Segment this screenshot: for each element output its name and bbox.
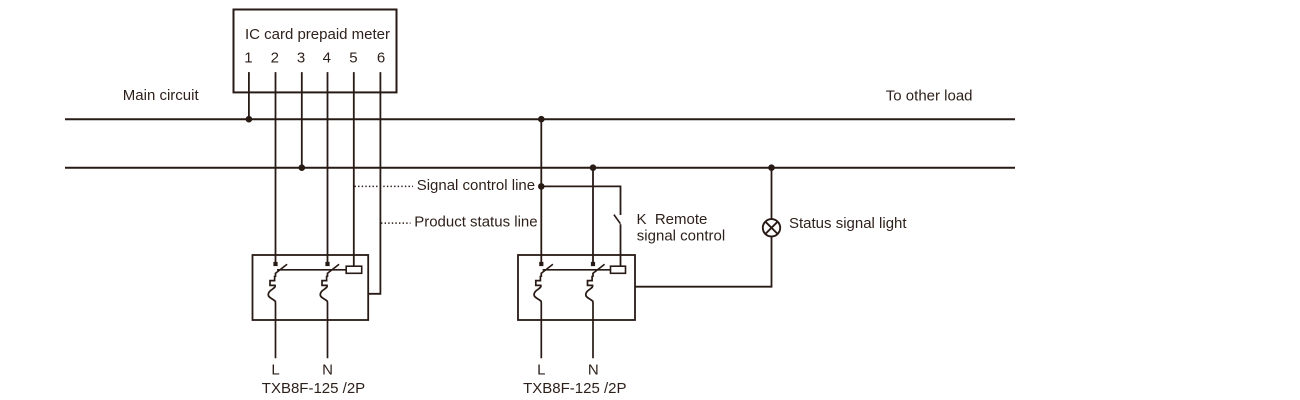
svg-text:K Remote: K Remote (637, 211, 708, 228)
breaker QF2 pole 1 blade (541, 264, 553, 274)
svg-text:2: 2 (271, 50, 279, 67)
wire top bus to QF2 pole 1 (540, 119, 542, 262)
wire pin 6 to QF1 right side (368, 72, 380, 294)
wire bottom bus to lamp (771, 168, 773, 220)
wire pin 1 to top bus (248, 72, 250, 119)
breaker QF2 trip unit (611, 266, 626, 273)
breaker QF1 pole 1 overload element and L output wire (268, 273, 275, 358)
svg-text:signal control: signal control (637, 227, 725, 244)
junction top bus / QF2 feeder (538, 116, 545, 123)
svg-text:L: L (271, 362, 279, 379)
breaker QF1 pole 2 blade (327, 264, 339, 274)
svg-text:3: 3 (297, 50, 305, 67)
junction signal control node (538, 183, 545, 190)
breaker QF2 pole 2 fixed contact (591, 262, 595, 266)
breaker QF1 pole 2 fixed contact (325, 262, 329, 266)
meter M1: IC card prepaid meter box (234, 10, 397, 93)
svg-text:6: 6 (377, 50, 385, 67)
leader dotted signal control line (355, 185, 414, 187)
wire pin 3 to bottom bus (301, 72, 303, 168)
breaker QF1 pole 1 blade (275, 264, 287, 274)
switch K blade (614, 215, 621, 224)
junction bottom bus / lamp branch (768, 164, 775, 171)
breaker QF1 box (253, 255, 369, 320)
svg-text:N: N (322, 362, 333, 379)
breaker QF2 box (518, 255, 635, 320)
svg-text:1: 1 (244, 50, 252, 67)
wire bottom bus to QF2 pole 2 (592, 168, 594, 262)
svg-text:Main circuit: Main circuit (123, 87, 200, 104)
wire lamp to QF2 aux output (635, 237, 772, 287)
wire main line L (top bus) (65, 118, 1015, 120)
svg-text:TXB8F-125 /2P: TXB8F-125 /2P (523, 380, 626, 397)
breaker QF1 linkage bar (277, 269, 346, 271)
junction pin1/top bus (246, 116, 253, 123)
lamp HL1 status signal light (763, 219, 780, 236)
breaker QF1 pole 2 overload element and N output wire (320, 273, 327, 358)
breaker QF2 pole 2 blade (592, 264, 604, 274)
breaker QF1 pole 1 fixed contact (273, 262, 277, 266)
svg-text:N: N (588, 362, 599, 379)
svg-text:TXB8F-125 /2P: TXB8F-125 /2P (262, 380, 365, 397)
svg-text:5: 5 (349, 50, 357, 67)
svg-text:Status signal light: Status signal light (789, 215, 907, 232)
breaker QF1 trip unit (346, 266, 362, 273)
leader dotted product status line (381, 222, 411, 224)
svg-text:To other load: To other load (886, 88, 973, 105)
wire signal branch to K switch (541, 186, 620, 215)
breaker QF2 pole 2 overload element and N output wire (586, 273, 593, 358)
wire K switch to QF2 trip unit (620, 224, 622, 266)
junction bottom bus / QF2 pole 2 (590, 164, 597, 171)
svg-text:L: L (537, 362, 545, 379)
breaker QF2 linkage bar (543, 269, 611, 271)
wire main line N (bottom bus) (65, 167, 1015, 169)
wire pin 5 to QF1 trip unit (353, 72, 355, 266)
svg-text:IC card prepaid meter: IC card prepaid meter (245, 26, 390, 43)
svg-text:Product status line: Product status line (414, 214, 537, 231)
junction pin3/bottom bus (299, 164, 306, 171)
svg-text:4: 4 (323, 50, 331, 67)
wire pin 2 to breaker QF1 pole 1 (275, 72, 277, 262)
wire pin 4 to breaker QF1 pole 2 (327, 72, 329, 262)
svg-text:Signal control line: Signal control line (417, 177, 535, 194)
breaker QF2 pole 1 fixed contact (539, 262, 543, 266)
breaker QF2 pole 1 overload element and L output wire (534, 273, 541, 358)
